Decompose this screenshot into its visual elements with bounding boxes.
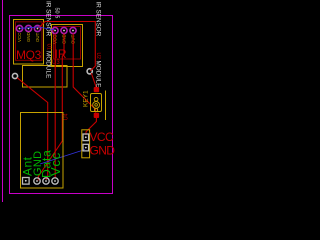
module U1 courtyard box	[16, 22, 43, 61]
wire U3 VCC down to Vcc pad	[54, 34, 56, 179]
U4 pad Data	[43, 178, 49, 184]
svg-text:GND: GND	[26, 32, 31, 42]
KEY1 body circle small top	[94, 97, 98, 101]
pad 3 U1 OUT	[34, 25, 40, 31]
svg-text:5: 5	[54, 16, 60, 19]
svg-text:MODULE: MODULE	[45, 51, 52, 78]
U4 pad Vcc	[52, 178, 58, 184]
module U3 IR fab body box	[52, 25, 83, 67]
pad 2 U3 GND	[61, 27, 67, 33]
wire KEY1 pad2 to J1 pad1	[86, 118, 96, 135]
svg-text:MQ3: MQ3	[16, 48, 42, 62]
module U4 RF body box	[21, 113, 64, 189]
via left	[12, 73, 17, 78]
pad 1 U3 VCC	[52, 27, 58, 33]
svg-text:U1: U1	[46, 44, 52, 51]
via right	[87, 69, 92, 74]
svg-text:U4: U4	[64, 113, 70, 120]
wire U3 OUT to KEY1 pad2	[73, 34, 95, 113]
fab line right	[105, 91, 107, 121]
svg-text:50: 50	[54, 8, 60, 14]
pad 1 U1 VCC	[16, 25, 22, 31]
svg-text:VCC: VCC	[90, 130, 114, 144]
sheet edge line	[2, 0, 4, 202]
connector J1 body	[82, 130, 90, 158]
J1 pad 1	[83, 134, 89, 141]
fab body box buzzer	[23, 66, 68, 88]
wire OUT U1 to via right	[38, 22, 95, 72]
wire via right to KEY1 pad1	[91, 73, 96, 88]
svg-text:GND: GND	[90, 143, 116, 157]
svg-text:IR: IR	[55, 47, 67, 61]
svg-text:OUT: OUT	[35, 32, 40, 42]
KEY1 body circle big	[93, 102, 100, 109]
svg-text:Vcc: Vcc	[48, 152, 63, 176]
svg-text:U2: U2	[95, 53, 101, 60]
wire via left to Data pad	[17, 78, 48, 180]
wire U3 GND down to GND pad	[38, 34, 64, 181]
switch KEY1 body	[91, 94, 102, 112]
U4 pad GND	[34, 178, 40, 184]
U4 pad Ant square	[23, 178, 30, 185]
svg-text:KEY1: KEY1	[83, 90, 90, 107]
module U3 courtyard box	[54, 27, 81, 60]
KEY1 body circle small bottom	[95, 108, 98, 111]
svg-text:IR SENSOR: IR SENSOR	[45, 1, 52, 37]
ratsnest line pads U1 to U3	[20, 27, 55, 30]
switch KEY1 pad 2	[94, 113, 99, 118]
J1 pad 2	[83, 144, 89, 151]
pad 2 U1 GND	[25, 25, 31, 31]
module U1 MQ3 fab body box	[14, 20, 44, 65]
board outline Edge.Cuts	[10, 16, 113, 194]
pad 3 U3 OUT	[70, 27, 76, 33]
switch KEY1 pad 1	[94, 87, 99, 92]
svg-text:VCC: VCC	[17, 33, 22, 42]
ratsnest line bottom	[40, 150, 85, 165]
